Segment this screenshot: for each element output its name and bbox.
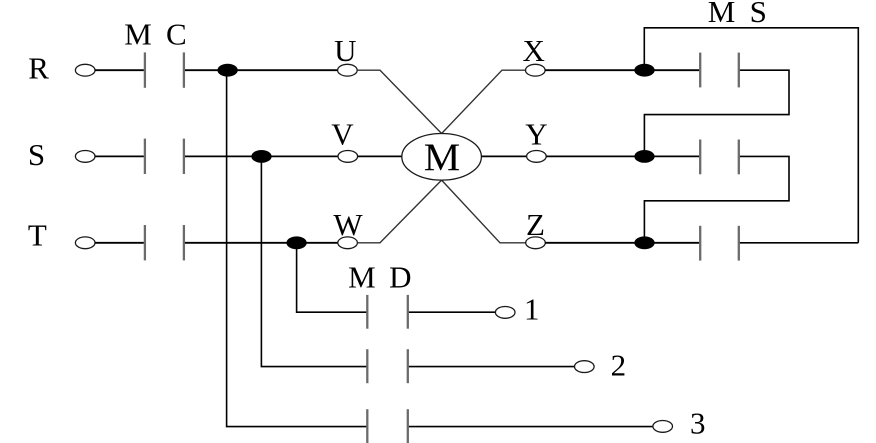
wire Y to contact MS [546, 155, 699, 157]
motor M1 [402, 134, 482, 181]
wire T to contact MC [95, 242, 144, 244]
wire motor to X [442, 70, 526, 133]
contact MC pole R [145, 52, 184, 87]
contact MS pole Z [700, 226, 739, 261]
junction dot T [286, 236, 306, 249]
svg-text:Y: Y [525, 117, 547, 152]
contact MD pole 1 [367, 295, 408, 329]
wire MC to W [185, 242, 338, 244]
wire motor to Z [442, 180, 526, 243]
contact MC pole T [145, 225, 184, 260]
svg-text:S: S [750, 0, 767, 29]
contact MS pole Y [700, 140, 739, 175]
terminal 3 [653, 421, 673, 433]
svg-text:M: M [348, 260, 376, 295]
wire MC to V [185, 155, 338, 157]
wire S dot down to row 2 [261, 156, 367, 366]
svg-text:R: R [28, 50, 49, 85]
svg-text:T: T [28, 218, 47, 253]
svg-text:M: M [708, 0, 736, 29]
wire Z to contact MS [545, 242, 699, 244]
svg-text:1: 1 [524, 292, 540, 327]
contact MS pole X [700, 53, 739, 88]
wire MC to U [185, 69, 338, 71]
terminal U [338, 64, 358, 76]
svg-text:C: C [166, 17, 187, 52]
svg-text:X: X [523, 33, 545, 68]
wire S to contact MC [95, 155, 144, 157]
svg-text:D: D [389, 260, 411, 295]
wire MD pole3 to terminal 3 [409, 426, 653, 428]
terminal S [75, 151, 95, 163]
svg-text:M: M [424, 136, 461, 179]
contact MD pole 2 [367, 349, 408, 383]
wire MS Y-pole wrap to Z dot [644, 156, 789, 242]
junction dot X [634, 64, 654, 77]
junction dot Y [634, 150, 654, 163]
terminal R [75, 64, 95, 76]
wire U to motor [357, 70, 441, 133]
terminal Y [527, 151, 547, 163]
terminal T [75, 237, 95, 249]
wire MS X-pole wrap to Y dot [644, 70, 789, 156]
svg-text:S: S [28, 137, 45, 172]
svg-text:U: U [334, 33, 356, 68]
terminal Z [526, 237, 546, 249]
contact MC pole S [145, 139, 184, 174]
terminal X [526, 64, 546, 76]
wire MD pole2 to terminal 2 [409, 366, 575, 368]
junction dot Z [634, 236, 654, 249]
wire R to contact MC [95, 69, 144, 71]
svg-text:M: M [124, 17, 152, 52]
terminal V [338, 151, 358, 163]
junction dot S [251, 150, 271, 163]
svg-text:3: 3 [690, 406, 706, 441]
junction dot R [217, 64, 237, 77]
wire T dot down to row 1 [297, 243, 368, 312]
terminal 2 [575, 361, 595, 373]
wire R dot down to row 3 [227, 70, 368, 426]
wire MS Z-pole to right bus [740, 242, 858, 244]
terminal 1 [495, 307, 515, 319]
wire V to motor [358, 155, 402, 157]
contact MD pole 3 [367, 409, 408, 443]
wire MD pole1 to terminal 1 [409, 311, 496, 313]
wire W to motor [357, 180, 441, 243]
wire X to contact MS [545, 69, 699, 71]
wire motor to Y [481, 155, 526, 157]
wire right bus up and across top to X dot [644, 28, 858, 243]
terminal W [338, 237, 358, 249]
svg-text:V: V [331, 117, 354, 152]
svg-text:2: 2 [611, 348, 627, 383]
